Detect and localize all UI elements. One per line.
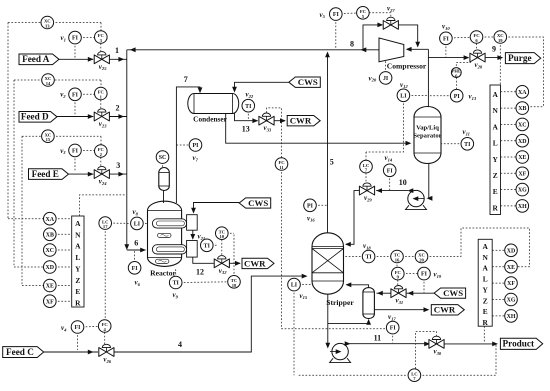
valve v28 [470, 53, 478, 62]
svg-text:15: 15 [46, 137, 51, 142]
svg-text:Reactor: Reactor [150, 269, 176, 278]
wire Feed E to valve [69, 173, 94, 175]
instrument LI [131, 217, 144, 230]
instrument XD [44, 261, 57, 274]
analyzer left box [72, 216, 84, 307]
wire reboiler vapor return [347, 285, 369, 288]
svg-text:XF: XF [46, 299, 54, 305]
analyzer2 output XD [501, 140, 518, 142]
wire stream 7 reactor to condenser [176, 87, 200, 203]
wire condenser outlet to separator [226, 114, 410, 144]
svg-text:FI: FI [72, 149, 79, 155]
svg-text:L: L [493, 139, 498, 148]
wire Feed D to valve [57, 116, 93, 118]
svg-text:13: 13 [242, 125, 250, 134]
analyzer output XD [55, 266, 72, 268]
analyzer2 output XB [501, 107, 518, 109]
svg-text:19: 19 [498, 38, 503, 43]
svg-text:Z: Z [493, 171, 498, 180]
svg-text:FI: FI [132, 266, 139, 272]
pump internal arrow [414, 198, 424, 200]
controller FC5 [369, 13, 391, 17]
wire v32 to CWR [229, 262, 240, 264]
wire XC20 to analyzer XE [426, 228, 529, 267]
CWR tag stripper [431, 305, 464, 315]
instrument XA [516, 86, 529, 99]
wire XC19 to analyzer [499, 42, 501, 85]
wire CWS into condenser [235, 82, 289, 91]
svg-text:10: 10 [399, 178, 407, 187]
svg-text:FI: FI [72, 92, 79, 98]
svg-text:TI: TI [464, 142, 471, 148]
CWS tag stripper [434, 288, 466, 298]
valve v29 [359, 186, 367, 195]
svg-text:Y: Y [493, 155, 499, 164]
svg-text:E: E [493, 187, 498, 196]
instrument PHL6 override [456, 60, 470, 66]
instrument XF [516, 167, 529, 180]
controller FC9 [403, 273, 420, 275]
instrument TC18 [228, 276, 241, 289]
valve v23 [94, 112, 102, 121]
wire separator bottom to pump [428, 164, 430, 199]
instrument FI stream3 [80, 149, 96, 151]
instrument TI [461, 138, 474, 151]
controller FC3 [100, 43, 102, 51]
svg-text:SC: SC [159, 155, 167, 161]
instrument XG [505, 293, 518, 306]
wire CWS to v31 [406, 292, 434, 294]
svg-text:4: 4 [178, 340, 182, 349]
wire XB to XC19 [527, 106, 543, 108]
instrument FC2 [95, 145, 108, 158]
svg-text:FI: FI [333, 12, 340, 18]
svg-text:L: L [75, 253, 80, 262]
instrument TI [169, 276, 182, 289]
valve v25 [94, 55, 102, 64]
svg-text:Compressor: Compressor [387, 62, 427, 71]
instrument XB [44, 228, 57, 241]
controller TC18 [233, 233, 235, 277]
instrument TI [242, 99, 255, 112]
wire analyzer left sample [79, 195, 126, 216]
agitator shaft [163, 189, 165, 204]
valve v32 [214, 259, 222, 268]
instrument LC17 [99, 217, 112, 230]
analyzer output XE [55, 285, 72, 287]
instrument TI [362, 250, 375, 263]
instrument XD [505, 244, 518, 257]
analyzer3 output XG [492, 299, 506, 301]
instrument FC6 [470, 31, 483, 44]
svg-text:Product: Product [503, 339, 535, 349]
svg-text:FI: FI [75, 325, 82, 331]
instrument JI [379, 72, 392, 85]
instrument FI v4 [82, 325, 100, 328]
svg-text:TI: TI [204, 243, 211, 249]
svg-text:A: A [493, 122, 499, 131]
analyzer2 output XC [501, 123, 518, 125]
instrument LC7 [408, 369, 421, 382]
analyzer3 output XE [492, 266, 506, 268]
controller FC1 [100, 100, 102, 109]
instrument PI [189, 139, 202, 152]
wire v33 to CWR [274, 120, 285, 122]
instrument FI [418, 267, 431, 280]
svg-text:L: L [483, 275, 488, 284]
instrument LI [288, 278, 301, 291]
svg-text:XD: XD [518, 139, 527, 145]
svg-text:Condenser: Condenser [193, 115, 227, 124]
wire valve v25 to header [109, 58, 126, 60]
svg-text:LI: LI [134, 222, 141, 228]
instrument TI v22 [247, 110, 249, 120]
wire compressor suction [407, 48, 428, 50]
svg-text:A: A [75, 242, 81, 251]
svg-text:A: A [483, 242, 489, 251]
wire compressor bypass [363, 25, 382, 50]
wire stream 5 stripper overhead [327, 55, 329, 233]
svg-text:FI: FI [72, 36, 79, 42]
CWS tag condenser [289, 77, 321, 87]
wire separator top to suction [427, 49, 429, 108]
svg-text:LI: LI [400, 93, 407, 99]
wire stream 4 feed C to stripper [44, 351, 98, 353]
svg-text:11: 11 [374, 334, 382, 343]
wire v28 to purge tag [485, 57, 502, 59]
instrument XC14 [42, 74, 55, 87]
wire CWS to reactor coil [194, 203, 240, 213]
svg-text:E: E [483, 307, 488, 316]
wire reboiler CWR out [374, 309, 428, 311]
reactor agitator mark 1 [158, 233, 171, 237]
instrument XC20 [415, 250, 428, 263]
svg-text:13: 13 [45, 24, 50, 29]
wire LI to LC [366, 100, 403, 152]
svg-text:XE: XE [507, 265, 515, 271]
reboiler vessel [363, 288, 375, 319]
controller LC17 [110, 222, 132, 224]
Feed E tag [29, 169, 69, 180]
svg-text:XD: XD [507, 248, 516, 254]
valve v33 [259, 116, 267, 125]
instrument XC19 [494, 31, 507, 44]
svg-text:TI: TI [173, 281, 180, 287]
instrument XC [516, 118, 529, 131]
instrument TI v11 [441, 143, 463, 145]
instrument LI [397, 89, 410, 102]
controller FC11 loop [267, 108, 282, 158]
instrument FI [69, 144, 82, 157]
wire TI to TC18 [180, 281, 229, 284]
valve v30 [429, 340, 437, 349]
wire box2 to valve v32 [193, 257, 214, 263]
wire box1 to box2 [192, 230, 194, 238]
analyzer2 output XE [501, 156, 518, 158]
instrument FI v10 [445, 43, 447, 57]
svg-text:LI: LI [291, 283, 298, 289]
instrument FI v6 [134, 251, 136, 263]
separator vessel [414, 107, 441, 164]
instrument FI stream2 [80, 93, 96, 95]
svg-text:XB: XB [46, 232, 54, 238]
controller TC10 [227, 232, 235, 234]
instrument FC1 [95, 87, 108, 100]
svg-text:17: 17 [103, 224, 108, 229]
svg-text:CWR: CWR [434, 305, 456, 315]
instrument XC13 [41, 16, 54, 29]
instrument PI [304, 199, 317, 212]
instrument FI [69, 88, 82, 101]
reactor agitator mark 2 [156, 259, 169, 263]
reactor coil 1 [152, 219, 186, 228]
instrument FI [128, 262, 141, 275]
svg-text:10: 10 [220, 234, 225, 239]
instrument PHL6 [451, 68, 461, 78]
wire stream 6 into reactor [127, 249, 146, 251]
svg-text:CWS: CWS [298, 77, 318, 87]
CWR tag condenser [287, 116, 320, 126]
controller XC19 [481, 36, 495, 38]
instrument XE [505, 260, 518, 273]
instrument PI v7 [176, 144, 190, 146]
controller XC15 [22, 135, 101, 137]
svg-text:R: R [75, 298, 81, 307]
svg-text:XG: XG [518, 188, 527, 194]
instrument LI v12 separator level [408, 95, 428, 97]
instrument LC7 [360, 160, 373, 173]
wire Feed A to valve [59, 58, 93, 60]
instrument FI [330, 8, 343, 21]
instrument PI v13 [428, 95, 452, 97]
svg-text:7: 7 [184, 75, 188, 84]
svg-text:FI: FI [443, 36, 450, 42]
wire purge line [428, 57, 468, 59]
reactor vessel [148, 201, 182, 266]
instrument FC4 [98, 320, 111, 333]
svg-text:PI: PI [454, 94, 461, 100]
wire v26 to stripper [114, 276, 306, 352]
svg-text:16: 16 [395, 258, 400, 263]
svg-text:N: N [493, 106, 499, 115]
Purge tag [505, 53, 540, 64]
instrument XA [44, 212, 57, 225]
svg-text:18: 18 [232, 283, 237, 288]
instrument FI [440, 32, 453, 45]
stripper packing [312, 248, 344, 250]
analyzer3 output XH [492, 315, 506, 317]
svg-text:Feed A: Feed A [22, 54, 50, 64]
instrument FI [71, 321, 84, 334]
Feed C tag [3, 347, 44, 358]
analyzer output XC [55, 249, 72, 251]
instrument PI [450, 89, 463, 102]
instrument FI [69, 31, 82, 44]
svg-text:Z: Z [483, 296, 488, 305]
instrument FI [386, 321, 399, 334]
wire recycle stream 8 horizontal top [127, 49, 379, 51]
instrument SC agitator [162, 162, 164, 168]
svg-text:Vap/Liq: Vap/Liq [416, 125, 439, 132]
instrument PI v16 [315, 204, 328, 206]
instrument JI v20 [385, 60, 387, 73]
instrument TI v18 [345, 256, 365, 258]
instrument FI v5 [341, 12, 359, 15]
controller FC4 [104, 332, 106, 344]
controller XC13 [8, 22, 101, 24]
svg-text:XE: XE [46, 284, 54, 290]
pump stripper [332, 343, 348, 359]
analyzer output XF [55, 300, 72, 302]
analyzer right-bottom box [478, 239, 492, 326]
instrument LI v15 stripper level [299, 284, 311, 286]
analyzer3 output XF [492, 282, 506, 284]
instrument XH [516, 200, 529, 213]
instrument TI v21 coil temp [212, 244, 219, 246]
controller XC14 [14, 79, 101, 81]
wire LI v15 to LC7 [293, 289, 295, 375]
svg-text:20: 20 [419, 258, 424, 263]
svg-text:9: 9 [492, 45, 496, 54]
wire stream 10 pump to v29 [376, 190, 408, 192]
svg-text:14: 14 [46, 81, 51, 86]
svg-text:Feed C: Feed C [6, 347, 34, 357]
svg-text:A: A [483, 264, 489, 273]
svg-text:XH: XH [518, 204, 527, 210]
svg-text:CWR: CWR [290, 116, 312, 126]
svg-text:E: E [75, 287, 80, 296]
instrument XC [44, 244, 57, 257]
svg-text:5: 5 [330, 158, 334, 167]
instrument FI v14 [389, 175, 391, 190]
svg-text:8: 8 [350, 40, 354, 49]
svg-text:CWR: CWR [244, 258, 266, 268]
svg-text:R: R [493, 203, 499, 212]
svg-text:Purge: Purge [508, 53, 531, 63]
wire valve v23 to header [109, 116, 126, 118]
reactor coil header box 2 [187, 241, 198, 258]
instrument XE [516, 151, 529, 164]
svg-text:XB: XB [518, 106, 526, 112]
svg-text:FI: FI [387, 168, 394, 174]
wire v29 to stripper [346, 191, 359, 245]
svg-text:Y: Y [483, 285, 489, 294]
instrument TC10 [216, 227, 229, 240]
svg-text:XH: XH [507, 314, 516, 320]
instrument XE [44, 279, 57, 292]
instrument FI stream1 [80, 37, 96, 39]
instrument FC5 [357, 7, 370, 20]
svg-text:XF: XF [518, 171, 526, 177]
valve v27 (no dome label above) [383, 21, 391, 30]
svg-text:TI: TI [245, 104, 252, 110]
svg-text:FI: FI [421, 272, 428, 278]
instrument XF [505, 277, 518, 290]
svg-text:2: 2 [116, 103, 120, 112]
svg-text:XC: XC [46, 248, 55, 254]
svg-text:Stripper: Stripper [326, 298, 354, 307]
svg-text:CWS: CWS [248, 198, 268, 208]
svg-text:A: A [493, 90, 499, 99]
Feed D tag [19, 112, 57, 123]
instrument TC16 [391, 250, 404, 263]
svg-text:Z: Z [75, 276, 80, 285]
stripper vessel [312, 233, 344, 294]
svg-text:XA: XA [518, 90, 527, 96]
instrument FI v17 [392, 332, 394, 343]
wire bypass return [398, 25, 417, 46]
instrument FC11 [275, 158, 288, 171]
instrument XF [44, 295, 57, 308]
CWR tag reactor [242, 258, 274, 268]
analyzer2 output XA [501, 91, 518, 93]
svg-text:6: 6 [134, 239, 138, 248]
svg-text:N: N [75, 230, 81, 239]
svg-text:XG: XG [507, 298, 516, 304]
instrument TI v9 reactor temp [175, 268, 177, 278]
valve v26 [99, 348, 107, 357]
svg-text:Feed D: Feed D [21, 112, 49, 122]
svg-text:3: 3 [116, 161, 120, 170]
instrument FC9 [392, 267, 405, 280]
controller LC separator [365, 152, 367, 162]
svg-text:R: R [483, 318, 489, 327]
wire stripper bottom to pump [327, 294, 329, 347]
wire v31 to reboiler [377, 292, 392, 294]
valve v31 [391, 289, 399, 298]
svg-text:1: 1 [115, 46, 119, 55]
Product tag [500, 338, 542, 349]
instrument TI [201, 239, 214, 252]
svg-text:11: 11 [279, 165, 284, 170]
wire valve v24 to header [109, 173, 126, 175]
svg-text:FI: FI [390, 326, 397, 332]
analyzer2 output XF [501, 172, 518, 174]
reactor coil 2 [152, 245, 186, 254]
wire feed header vertical (streams 1-3 to reactor) [126, 50, 128, 247]
svg-text:XF: XF [507, 281, 515, 287]
analyzer2 output XH [501, 205, 518, 207]
controller FC6 [476, 43, 478, 49]
controller XC20 [402, 256, 417, 258]
instrument XC15 [42, 130, 55, 143]
svg-text:TI: TI [365, 255, 372, 261]
wire condenser CW out to v33 [235, 114, 258, 121]
controller LC7 loop [299, 374, 410, 376]
svg-text:JI: JI [383, 76, 389, 82]
analyzer2 output XG [501, 189, 518, 191]
instrument XH [505, 310, 518, 323]
svg-text:XC: XC [518, 123, 527, 129]
svg-text:PI: PI [193, 143, 200, 149]
instrument XD [516, 134, 529, 147]
valve v24 [94, 170, 102, 179]
instrument XG [516, 183, 529, 196]
instrument SC [156, 151, 169, 164]
wire analyzer3 sample to product line [483, 326, 485, 343]
Feed A tag [19, 54, 59, 65]
analyzer3 output XD [492, 249, 506, 251]
wire stripper bottoms to reboiler [328, 320, 369, 324]
svg-text:A: A [75, 219, 81, 228]
svg-text:XA: XA [46, 217, 55, 223]
controller FC2 [100, 157, 102, 166]
CWS tag reactor [239, 198, 271, 208]
svg-text:Separator: Separator [413, 133, 441, 140]
analyzer output XB [55, 233, 72, 235]
svg-text:XE: XE [518, 155, 526, 161]
instrument LI v8 reactor level [142, 222, 148, 224]
